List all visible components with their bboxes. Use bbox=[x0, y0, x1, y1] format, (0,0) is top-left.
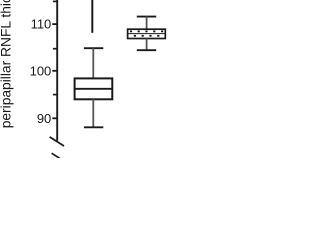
left box upper whisker cap bbox=[84, 47, 103, 49]
left box upper whisker bbox=[92, 48, 94, 78]
svg-text:110: 110 bbox=[31, 17, 52, 32]
left box median bbox=[75, 88, 113, 90]
right box upper whisker cap bbox=[137, 16, 156, 18]
left box body bbox=[75, 78, 113, 99]
right box lower whisker bbox=[146, 39, 148, 51]
y-axis line bbox=[56, 0, 58, 141]
cropped line above left box bbox=[91, 0, 93, 33]
right box median bbox=[128, 33, 166, 35]
axis break slash lower bbox=[52, 153, 66, 162]
major tick 90 bbox=[52, 117, 57, 119]
svg-text:90: 90 bbox=[37, 111, 51, 126]
major tick 110 bbox=[52, 23, 57, 25]
right box upper whisker bbox=[146, 17, 148, 30]
right box body bbox=[128, 29, 166, 38]
right box lower whisker cap bbox=[137, 49, 156, 51]
minor tick 115 bbox=[53, 0, 57, 2]
left box lower whisker cap bbox=[84, 126, 103, 128]
left box lower whisker bbox=[92, 99, 94, 127]
right box dot fill row 2 bbox=[134, 35, 160, 37]
minor tick 95 bbox=[53, 94, 57, 96]
major tick 100 bbox=[52, 70, 57, 72]
axis break slash upper bbox=[50, 137, 64, 146]
right box dot fill row 1 bbox=[130, 31, 163, 33]
svg-text:peripapillar RNFL thickness: peripapillar RNFL thickness bbox=[0, 0, 13, 128]
minor tick 105 bbox=[53, 48, 57, 50]
svg-text:100: 100 bbox=[30, 63, 52, 78]
